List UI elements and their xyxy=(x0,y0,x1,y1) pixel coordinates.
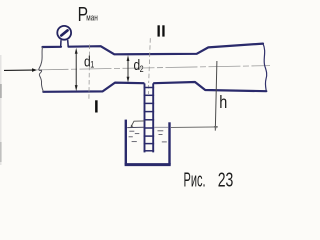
left break line xyxy=(39,47,43,92)
scan edge streak xyxy=(0,55,2,165)
pipe lower wall xyxy=(43,82,266,92)
dimension d1 xyxy=(75,48,78,91)
label II xyxy=(158,25,165,36)
label I xyxy=(95,100,98,112)
svg-text:h: h xyxy=(219,93,227,113)
label h xyxy=(219,93,227,113)
centerline xyxy=(37,66,271,70)
svg-text:23: 23 xyxy=(218,170,234,192)
manometer gauge xyxy=(57,26,71,47)
svg-text:Рис.: Рис. xyxy=(184,170,206,192)
svg-text:ман: ман xyxy=(86,12,98,22)
piezometer tube xyxy=(144,83,155,152)
liquid dashes xyxy=(129,131,167,142)
label d2 xyxy=(134,57,145,74)
svg-text:1: 1 xyxy=(90,60,94,70)
vessel xyxy=(125,120,171,165)
dimension d2 xyxy=(127,55,130,83)
h junction tick xyxy=(214,126,217,130)
right break line xyxy=(263,44,267,92)
label P man xyxy=(78,3,98,25)
section line I xyxy=(88,45,91,101)
section line II xyxy=(149,38,151,83)
h dimension line xyxy=(215,61,217,131)
label d1 xyxy=(84,53,95,70)
level callout xyxy=(131,121,145,128)
svg-text:2: 2 xyxy=(140,64,144,74)
h reference line xyxy=(171,126,218,129)
liquid surface xyxy=(127,126,168,128)
flow arrow xyxy=(4,68,37,72)
pipe upper wall xyxy=(43,44,264,55)
